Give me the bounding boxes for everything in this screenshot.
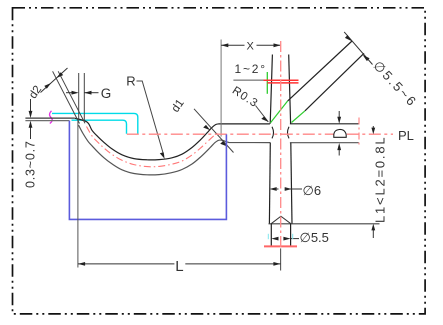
red nozzle contact tick upper: [264, 79, 299, 81]
cyan open-position profile outer line: [52, 113, 138, 133]
flange top line: [25, 117, 74, 119]
G dimension line with arrows: [66, 92, 76, 94]
bowl red centerline arc: [87, 127, 218, 167]
L1&lt;L2=0.8L dimension arrows: [372, 126, 374, 130]
lower sprue hole right wall: [291, 143, 292, 224]
blue lower die block outline: [69, 121, 226, 220]
L dimension left extension line: [77, 121, 79, 268]
pin gate waist left arc: [272, 127, 274, 139]
diameter 6 dimension arrows and label: [270, 187, 277, 191]
svg-text:∅6: ∅6: [303, 183, 322, 198]
flange bottom line: [25, 120, 69, 122]
red vertical centerline of sprue: [280, 41, 282, 248]
sprue puller cone: [271, 216, 291, 224]
tip section left wall: [270, 224, 272, 247]
svg-text:0.3~0.7: 0.3~0.7: [24, 140, 38, 188]
left wall extension line 1: [53, 71, 80, 123]
left wall extension line 2: [58, 71, 85, 123]
D height dimension arrows: [338, 111, 340, 118]
runner lower wall: [305, 53, 364, 111]
red gate line at tip: [264, 245, 297, 247]
lower plate bottom line: [269, 223, 380, 225]
green draft reference line: [266, 72, 268, 94]
lower die surface right of sprue: [290, 142, 359, 144]
sprue right wall (drafted): [289, 55, 291, 124]
svg-text:G: G: [101, 86, 112, 101]
green runner wall extension right: [292, 111, 306, 123]
cyan open-position profile inner line: [72, 120, 127, 134]
L dimension line with arrows: [78, 263, 174, 265]
d2 dimension line with arrows: [41, 68, 68, 93]
svg-text:∅5.5: ∅5.5: [300, 230, 329, 245]
G gap extension verticals: [78, 73, 80, 120]
svg-text:1~2°: 1~2°: [235, 62, 267, 76]
tip section right wall: [290, 224, 292, 247]
svg-text:R: R: [126, 73, 135, 88]
diameter 5.5 dimension arrows and label: [271, 237, 278, 241]
runner upper wall: [288, 41, 352, 101]
bowl inner surface: [75, 118, 270, 160]
runner diameter dimension line: [344, 32, 372, 65]
bowl outer surface: [79, 125, 271, 175]
red bead centerline vertical: [358, 118, 360, 147]
0.3~0.7 dimension line with arrows: [30, 99, 32, 116]
X extension line: [220, 40, 222, 137]
svg-text:X: X: [247, 41, 255, 53]
top cavity surface right of sprue: [290, 123, 359, 125]
red horizontal PL centerline: [127, 133, 393, 135]
d1 leader line with two arrows: [194, 109, 234, 153]
svg-text:PL: PL: [398, 128, 414, 143]
sprue left wall (drafted): [270, 55, 272, 124]
green runner wall extension left: [270, 101, 287, 123]
lower sprue hole left wall: [268, 143, 271, 224]
D-bead product cross-section: [334, 129, 346, 137]
magenta break squiggle: [50, 111, 53, 124]
svg-text:L: L: [175, 258, 183, 275]
svg-text:L1<L2=0.8L: L1<L2=0.8L: [373, 136, 388, 223]
red nozzle contact tick lower: [267, 82, 298, 84]
X dimension line with arrows: [221, 44, 244, 46]
cyan extension ticks at tip: [267, 234, 269, 239]
L dimension right extension line: [280, 248, 282, 270]
pin gate waist right arc: [288, 127, 290, 139]
